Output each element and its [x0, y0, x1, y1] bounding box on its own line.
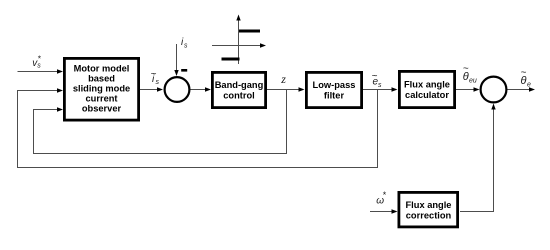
svg-text:correction: correction	[406, 211, 452, 221]
wire low-pass to flux angle calculator	[363, 89, 393, 91]
relay symbol top bar	[239, 30, 260, 33]
svg-text:current: current	[85, 94, 117, 104]
wire calculator to summing junction 2	[456, 89, 475, 91]
relay symbol horizontal axis	[212, 45, 262, 47]
svg-text:Flux angle: Flux angle	[404, 80, 450, 90]
svg-text:s: s	[156, 79, 160, 86]
svg-text:Flux angle: Flux angle	[406, 200, 452, 210]
node is label	[181, 37, 188, 50]
svg-text:filter: filter	[324, 90, 345, 100]
relay symbol bottom bar	[222, 58, 240, 61]
svg-text:*: *	[383, 190, 387, 200]
node i~s label	[151, 69, 160, 86]
node e~s label	[372, 71, 383, 89]
block Motor model based sliding mode current observer	[64, 58, 138, 120]
svg-text:based: based	[88, 74, 115, 84]
wire observer output to summing junction	[140, 89, 159, 91]
summing junction 1	[165, 77, 190, 102]
wire band-gang to low-pass	[267, 89, 300, 91]
node theta~eu label	[463, 64, 477, 85]
minus sign at summing junction	[181, 69, 187, 72]
svg-text:calculator: calculator	[405, 90, 449, 100]
block Flux angle correction	[399, 192, 458, 227]
wire junction 2 output	[508, 89, 531, 91]
svg-text:z: z	[280, 72, 286, 86]
wire correction to summing junction 2	[460, 109, 494, 212]
svg-text:e: e	[527, 82, 531, 89]
wire is input (vertical)	[176, 44, 178, 72]
svg-text:Low-pass: Low-pass	[313, 80, 356, 90]
block Flux angle calculator	[399, 71, 454, 107]
wire omega* input	[370, 211, 393, 213]
relay symbol vertical axis	[238, 20, 240, 65]
svg-text:s: s	[37, 63, 41, 70]
wire feedback B (e to middle input)	[18, 90, 378, 168]
svg-text:sliding mode: sliding mode	[73, 84, 130, 94]
wire vs* input	[18, 71, 59, 73]
node omega* label	[376, 190, 387, 206]
svg-text:Band-gang: Band-gang	[215, 80, 264, 90]
node theta~e label	[521, 68, 532, 89]
block Band-gang control	[212, 72, 265, 107]
wire feedback A (z to bottom input)	[34, 90, 287, 154]
node vs* label	[32, 54, 42, 70]
svg-text:θ: θ	[463, 71, 469, 83]
svg-text:eu: eu	[469, 78, 477, 85]
svg-text:s: s	[184, 43, 188, 50]
wire junction to band-gang	[191, 89, 207, 91]
svg-text:observer: observer	[82, 104, 122, 114]
svg-text:control: control	[223, 91, 255, 101]
svg-text:Motor model: Motor model	[74, 64, 130, 74]
svg-text:s: s	[378, 82, 382, 89]
svg-text:θ: θ	[521, 75, 527, 87]
block Low-pass filter	[306, 72, 361, 107]
summing junction 2	[481, 77, 507, 103]
